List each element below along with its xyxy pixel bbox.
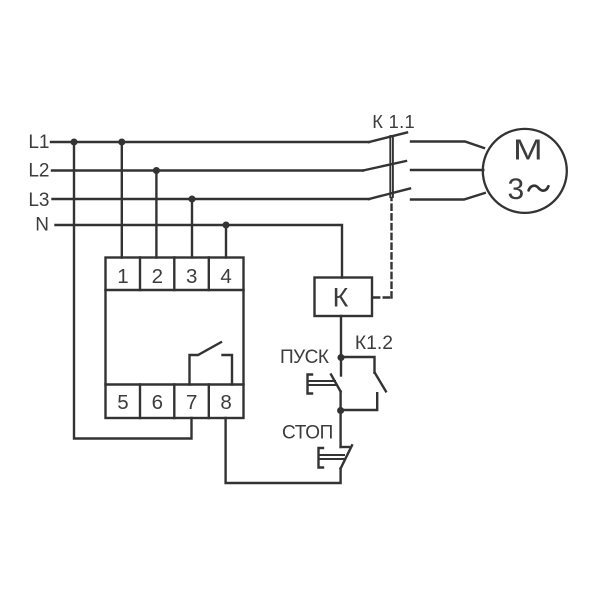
svg-text:К: К xyxy=(333,283,349,313)
svg-text:5: 5 xyxy=(117,391,128,414)
svg-text:4: 4 xyxy=(220,265,231,288)
svg-text:6: 6 xyxy=(152,391,163,414)
svg-text:3: 3 xyxy=(186,265,197,288)
svg-text:К 1.1: К 1.1 xyxy=(372,111,415,132)
svg-text:8: 8 xyxy=(220,391,231,414)
svg-text:L2: L2 xyxy=(28,161,49,182)
svg-text:1: 1 xyxy=(117,265,128,288)
svg-text:N: N xyxy=(35,215,49,236)
svg-text:3: 3 xyxy=(508,173,525,206)
svg-text:L1: L1 xyxy=(28,132,49,153)
svg-text:М: М xyxy=(513,135,543,167)
svg-text:L3: L3 xyxy=(28,190,49,211)
svg-text:СТОП: СТОП xyxy=(282,423,333,444)
svg-text:2: 2 xyxy=(152,265,163,288)
svg-text:К1.2: К1.2 xyxy=(355,333,393,354)
svg-text:7: 7 xyxy=(186,391,197,414)
svg-text:ПУСК: ПУСК xyxy=(280,347,329,368)
